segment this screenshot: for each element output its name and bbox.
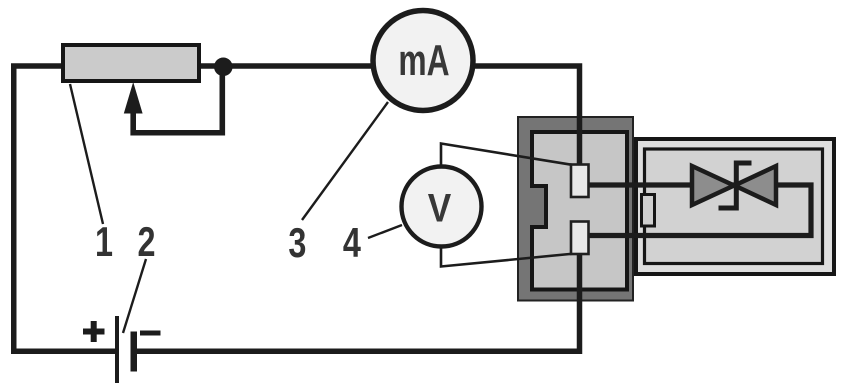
svg-text:V: V (428, 185, 451, 230)
svg-text:mA: mA (398, 37, 449, 85)
svg-text:1: 1 (95, 218, 113, 265)
svg-text:2: 2 (137, 218, 155, 265)
svg-text:3: 3 (288, 219, 306, 266)
svg-text:4: 4 (343, 219, 361, 266)
